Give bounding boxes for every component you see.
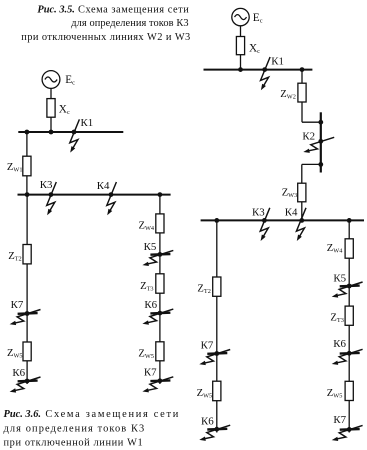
wire Xc to bus B1 — [240, 55, 242, 70]
node dot bus B2 / right branch — [347, 218, 352, 223]
wire ZW5 to end right branch — [159, 361, 161, 384]
resistor ZW2 — [298, 83, 306, 102]
wire bus A1 to ZW1 — [26, 132, 28, 156]
node dot bus A2 / left branch — [25, 192, 30, 197]
bus A1 — [18, 131, 123, 133]
node dot fault K4 / ZW3 junction — [299, 218, 304, 223]
node dot fault K1 — [72, 130, 77, 135]
svg-text:К6: К6 — [201, 416, 214, 428]
bus B1 — [204, 69, 313, 71]
svg-text:К7: К7 — [333, 414, 346, 426]
fault arrow K5 — [142, 250, 173, 266]
node dot fault K7 right branch — [158, 378, 163, 383]
wire ZW3 to bus B2 — [301, 202, 303, 221]
fault arrow K7 right branch — [332, 425, 363, 441]
wire bus A2 down left branch to ZT2 — [26, 195, 28, 245]
svg-text:Рис. 3.6. Схема замещения сети: Рис. 3.6. Схема замещения сети — [4, 409, 181, 420]
fault arrow K7 left branch — [199, 350, 230, 366]
fault arrow K5 — [332, 282, 363, 298]
node dot fault K3 — [262, 218, 267, 223]
svg-text:Рис. 3.5. Схема замещения сети: Рис. 3.5. Схема замещения сети — [37, 5, 189, 16]
svg-text:К7: К7 — [11, 299, 24, 311]
wire bus B1 to ZW2 — [301, 70, 303, 84]
wire Xc to bus A1 — [50, 117, 52, 132]
resistor Xc — [236, 37, 244, 55]
wire jog from K2 line — [302, 163, 321, 165]
node dot bus A1 / left branch — [25, 130, 30, 135]
wire ZT2 to ZW5 — [26, 264, 28, 342]
node dot bus A1 / Xc — [49, 130, 54, 135]
svg-text:К4: К4 — [97, 180, 110, 192]
svg-text:К1: К1 — [81, 117, 94, 129]
svg-text:К6: К6 — [12, 367, 25, 379]
fault arrow K6 right branch — [142, 309, 173, 325]
node dot fault K7 left branch — [25, 311, 30, 316]
wire jog to K2 line — [302, 121, 321, 123]
wire down to ZW3 — [301, 164, 303, 183]
svg-text:К2: К2 — [302, 130, 315, 142]
resistor Xc — [47, 99, 55, 118]
fault arrow K3 — [260, 208, 270, 241]
node dot fault K6 right branch — [347, 351, 352, 356]
resistor ZW3 — [298, 183, 306, 202]
node dot fault K6 right branch — [158, 311, 163, 316]
fault arrow K7 right branch — [142, 377, 173, 393]
fault arrow K2 — [303, 137, 334, 153]
svg-text:К6: К6 — [333, 338, 346, 350]
svg-text:К6: К6 — [144, 299, 157, 311]
wire bus B2 down left branch to ZT2 — [216, 220, 218, 277]
fault arrow K4 — [107, 182, 117, 215]
line W2-W3 bar (K2) — [320, 112, 322, 172]
node dot fault K7 left branch — [214, 351, 219, 356]
svg-text:К3: К3 — [252, 206, 265, 218]
resistor ZT2 — [23, 245, 31, 264]
wire ZT3 to ZW5 right branch — [348, 325, 350, 381]
wire ZT3 to ZW5 right branch — [159, 293, 161, 342]
svg-text:при отключенной линии W1: при отключенной линии W1 — [4, 438, 144, 449]
node dot fault K6 left branch — [25, 379, 30, 384]
svg-text:для определения токов К3: для определения токов К3 — [71, 18, 188, 29]
node dot fault K1 — [262, 67, 267, 72]
resistor ZW5 left branch — [23, 342, 31, 361]
node dot fault K7 right branch — [347, 427, 352, 432]
resistor ZW5 right branch — [345, 381, 353, 400]
bus A2 — [18, 194, 171, 196]
svg-text:К5: К5 — [333, 273, 346, 285]
wire ZT2 to ZW5 — [216, 296, 218, 381]
wire ZW4 to ZT3 — [159, 233, 161, 274]
resistor ZT3 — [345, 306, 353, 325]
fault arrow K6 right branch — [332, 349, 363, 365]
svg-text:К7: К7 — [201, 340, 214, 352]
wire ZW5 to end — [26, 361, 28, 384]
node dot bus B2 / left branch — [214, 218, 219, 223]
node dot fault K2 — [318, 139, 323, 144]
svg-text:К5: К5 — [144, 241, 157, 253]
resistor ZT2 — [213, 277, 221, 296]
node dot fault K6 left branch — [214, 427, 219, 432]
resistor ZW4 — [345, 239, 353, 258]
wire ZW5 to end right branch — [348, 401, 350, 433]
wire ZW4 to ZT3 — [348, 258, 350, 306]
svg-text:К7: К7 — [144, 366, 157, 378]
resistor ZW4 — [156, 214, 164, 233]
node dot K2 bottom — [318, 162, 323, 167]
fault arrow K1 — [261, 57, 271, 90]
svg-text:К4: К4 — [285, 206, 298, 218]
node dot fault K3 — [49, 192, 54, 197]
fault arrow K4 — [296, 208, 306, 241]
wire source to Xc — [50, 88, 52, 98]
wire bus B2 down right branch to ZW4 — [348, 220, 350, 238]
svg-text:К3: К3 — [40, 179, 53, 191]
wire ZW5 to end left branch — [216, 401, 218, 433]
svg-text:К1: К1 — [271, 56, 284, 68]
node dot K2 top — [318, 120, 323, 125]
fault arrow K6 left branch — [10, 377, 41, 393]
wire bus A2 down right branch to ZW4 — [159, 195, 161, 214]
wire source to Xc — [240, 26, 242, 37]
bus B2 — [201, 219, 364, 221]
fault arrow K6 left branch — [199, 425, 230, 441]
resistor ZW5 left branch — [213, 381, 221, 401]
node dot fault K5 — [347, 284, 352, 289]
svg-text:для определения токов К3: для определения токов К3 — [4, 423, 146, 434]
resistor ZW1 — [23, 156, 31, 176]
resistor ZT3 — [156, 274, 164, 293]
source G2 (system EMF) — [232, 8, 249, 25]
source G1 (system EMF) — [42, 71, 60, 89]
fault arrow K3 — [47, 182, 57, 215]
fault arrow K7 left branch — [10, 310, 41, 326]
node dot fault K4 — [109, 192, 114, 197]
wire ZW1 to bus A2 — [26, 176, 28, 195]
fault arrow K1 — [70, 119, 80, 152]
node dot fault K5 — [158, 252, 163, 257]
node dot bus B1 / ZW2 — [300, 67, 305, 72]
svg-text:при отключенных линиях W2 и W3: при отключенных линиях W2 и W3 — [21, 32, 190, 43]
node dot bus B1 / Xc — [238, 67, 243, 72]
node dot bus A2 / right branch — [158, 192, 163, 197]
resistor ZW5 right branch — [156, 342, 164, 361]
wire ZW2 down — [301, 102, 303, 122]
